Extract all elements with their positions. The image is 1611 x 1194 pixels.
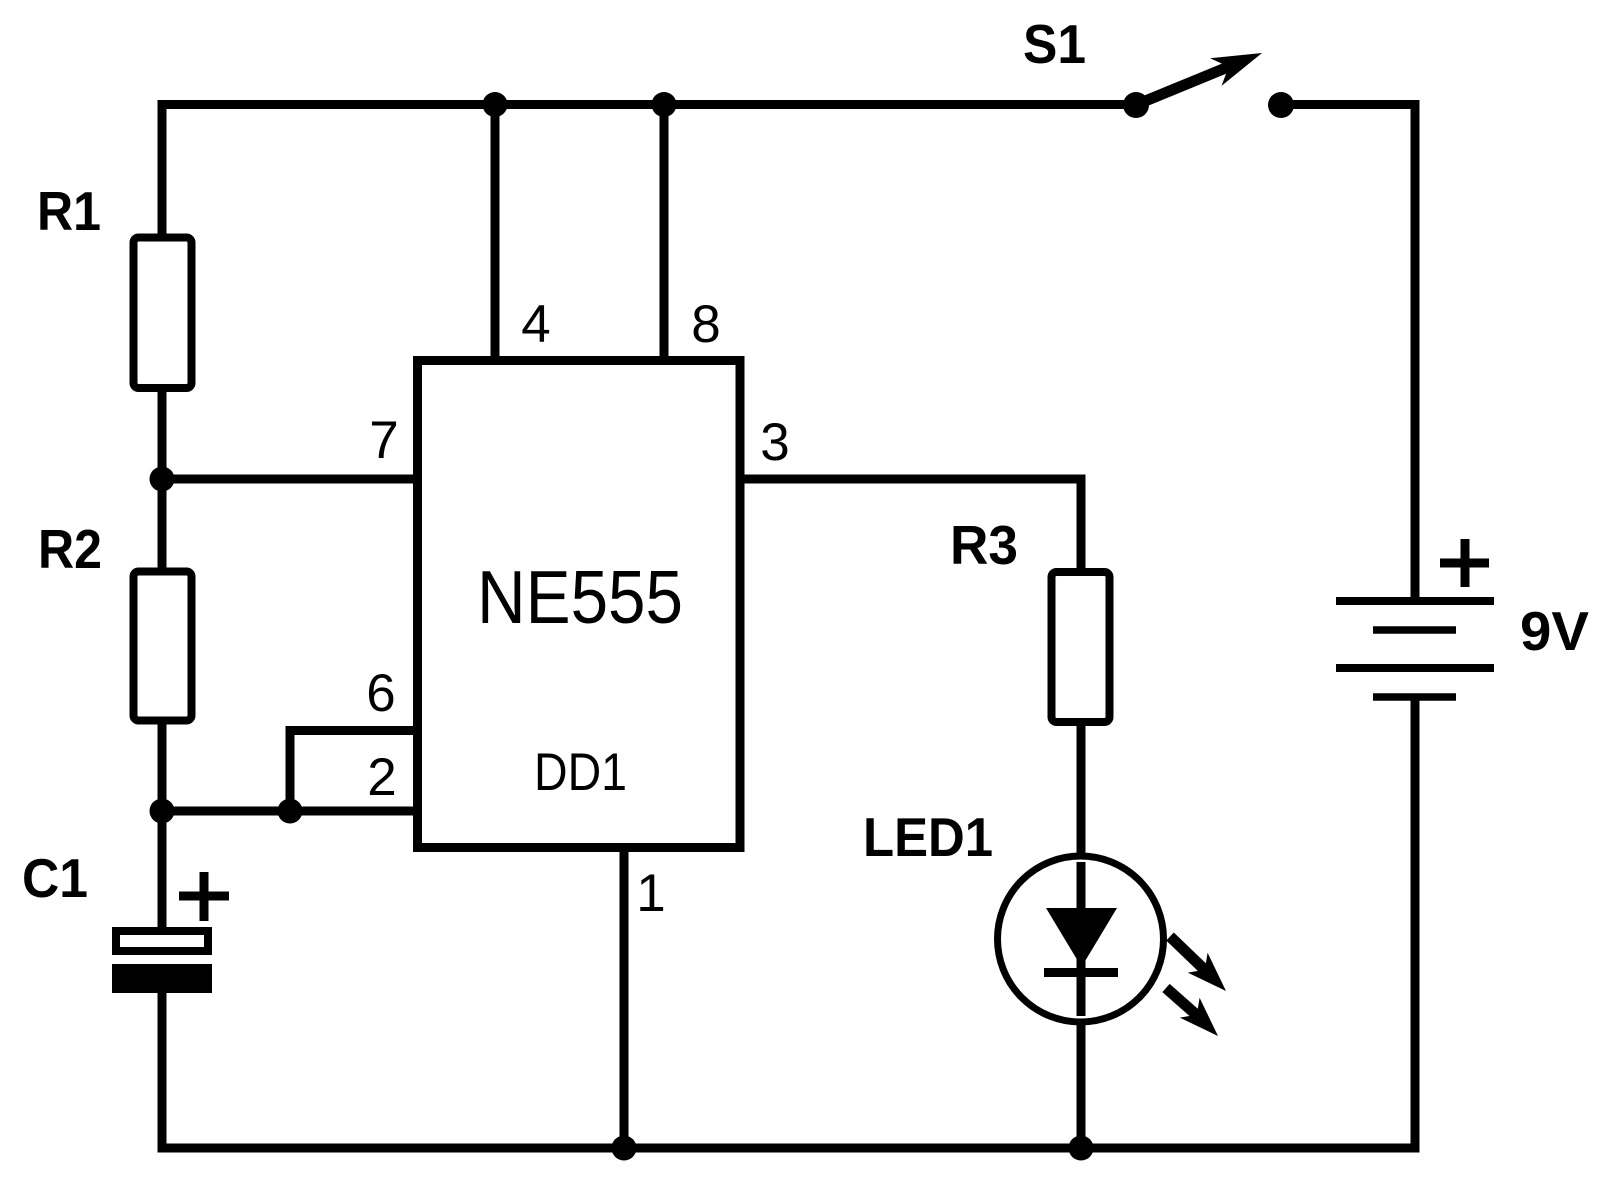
- svg-text:4: 4: [521, 295, 550, 354]
- wire R3 through LED1 to bottom rail: [1077, 718, 1086, 1148]
- LED1 anode wire through body: [1077, 862, 1086, 1016]
- LED1 diode triangle: [1046, 908, 1117, 967]
- wire switch to battery positive: [1281, 105, 1415, 602]
- svg-text:DD1: DD1: [534, 743, 627, 802]
- wire pin 8 to top rail: [660, 105, 669, 361]
- battery BT1 long plate lower: [1336, 664, 1494, 672]
- capacitor C1 positive plate: [116, 931, 208, 951]
- label S1: [1023, 13, 1086, 75]
- node 7 junction left rail: [150, 467, 175, 492]
- wire pin 2 to node 2: [162, 807, 417, 816]
- resistor R2: [134, 572, 192, 721]
- capacitor C1 negative plate: [112, 964, 212, 993]
- label LED1: [863, 806, 993, 868]
- resistor R3: [1052, 572, 1110, 722]
- wire R2 to node 2: [158, 718, 167, 811]
- node junction top rail pin 4: [483, 92, 508, 117]
- label R1: [37, 180, 101, 242]
- switch S1 pole junction: [1123, 92, 1149, 118]
- switch S1 throw junction: [1268, 92, 1294, 118]
- node junction bottom rail LED1: [1069, 1136, 1094, 1161]
- label 9V: [1520, 600, 1589, 662]
- pin number 8: [691, 295, 720, 354]
- svg-text:3: 3: [760, 413, 789, 472]
- wire bottom rail (ground bus): [158, 1144, 1420, 1153]
- pin number 2: [367, 748, 396, 807]
- switch S1 arm arrowhead: [1210, 53, 1262, 86]
- svg-text:R1: R1: [37, 180, 101, 242]
- svg-text:C1: C1: [22, 847, 88, 909]
- svg-text:9V: 9V: [1520, 600, 1589, 662]
- node junction bottom rail pin 1: [612, 1136, 637, 1161]
- wire pin 6: [290, 726, 417, 735]
- node junction top rail pin 8: [652, 92, 677, 117]
- LED1 light emission arrow lower head: [1180, 998, 1218, 1036]
- svg-text:R2: R2: [38, 518, 102, 580]
- wire left rail top to R1: [158, 100, 167, 241]
- LED1 circle body: [998, 856, 1164, 1022]
- battery polarity plus sign: [1440, 539, 1489, 587]
- wire pin 7 to node 7: [162, 475, 417, 484]
- wire node 2 to C1 positive plate: [158, 811, 167, 932]
- svg-text:R3: R3: [950, 514, 1018, 576]
- svg-text:2: 2: [367, 748, 396, 807]
- pin number 4: [521, 295, 550, 354]
- wire top rail (V+ bus): [162, 100, 1136, 109]
- wire battery negative to bottom rail: [1411, 697, 1420, 1148]
- svg-text:6: 6: [366, 664, 395, 723]
- wire pin 3 to R3: [741, 479, 1081, 575]
- switch S1 arm: [1138, 64, 1234, 104]
- resistor R1: [134, 238, 192, 389]
- pin number 7: [369, 411, 398, 470]
- op-amp U1: IC DD1 NE555 body: [418, 361, 741, 848]
- LED1 light emission arrow upper head: [1188, 953, 1226, 991]
- pin number 1: [636, 864, 665, 923]
- svg-text:NE555: NE555: [477, 555, 683, 639]
- label NE555: [477, 555, 683, 639]
- LED1 cathode bar: [1044, 968, 1118, 977]
- label DD1: [534, 743, 627, 802]
- svg-text:LED1: LED1: [863, 806, 993, 868]
- svg-text:1: 1: [636, 864, 665, 923]
- battery BT1 short plate upper: [1373, 626, 1456, 634]
- wire node 7 to R2: [158, 479, 167, 575]
- LED1 light emission arrow upper shaft: [1170, 937, 1208, 973]
- wire R1 to node 7: [158, 385, 167, 479]
- label R3: [950, 514, 1018, 576]
- capacitor C1 polarity plus sign: [179, 872, 229, 921]
- svg-text:7: 7: [369, 411, 398, 470]
- svg-text:8: 8: [691, 295, 720, 354]
- pin number 6: [366, 664, 395, 723]
- label C1: [22, 847, 88, 909]
- wire C1 negative plate to bottom rail: [158, 990, 167, 1148]
- svg-text:S1: S1: [1023, 13, 1086, 75]
- pin number 3: [760, 413, 789, 472]
- battery BT1 negative short plate: [1373, 693, 1456, 701]
- wire pin 1 to bottom rail: [620, 848, 629, 1148]
- node 2 junction left rail: [150, 799, 175, 824]
- wire pin 4 to top rail: [491, 105, 500, 361]
- node junction pin2/pin6 jog: [278, 799, 303, 824]
- LED1 light emission arrow lower shaft: [1166, 988, 1200, 1018]
- label R2: [38, 518, 102, 580]
- battery BT1 positive long plate: [1336, 597, 1494, 605]
- wire pin 6 to pin 2 jog: [286, 726, 295, 811]
